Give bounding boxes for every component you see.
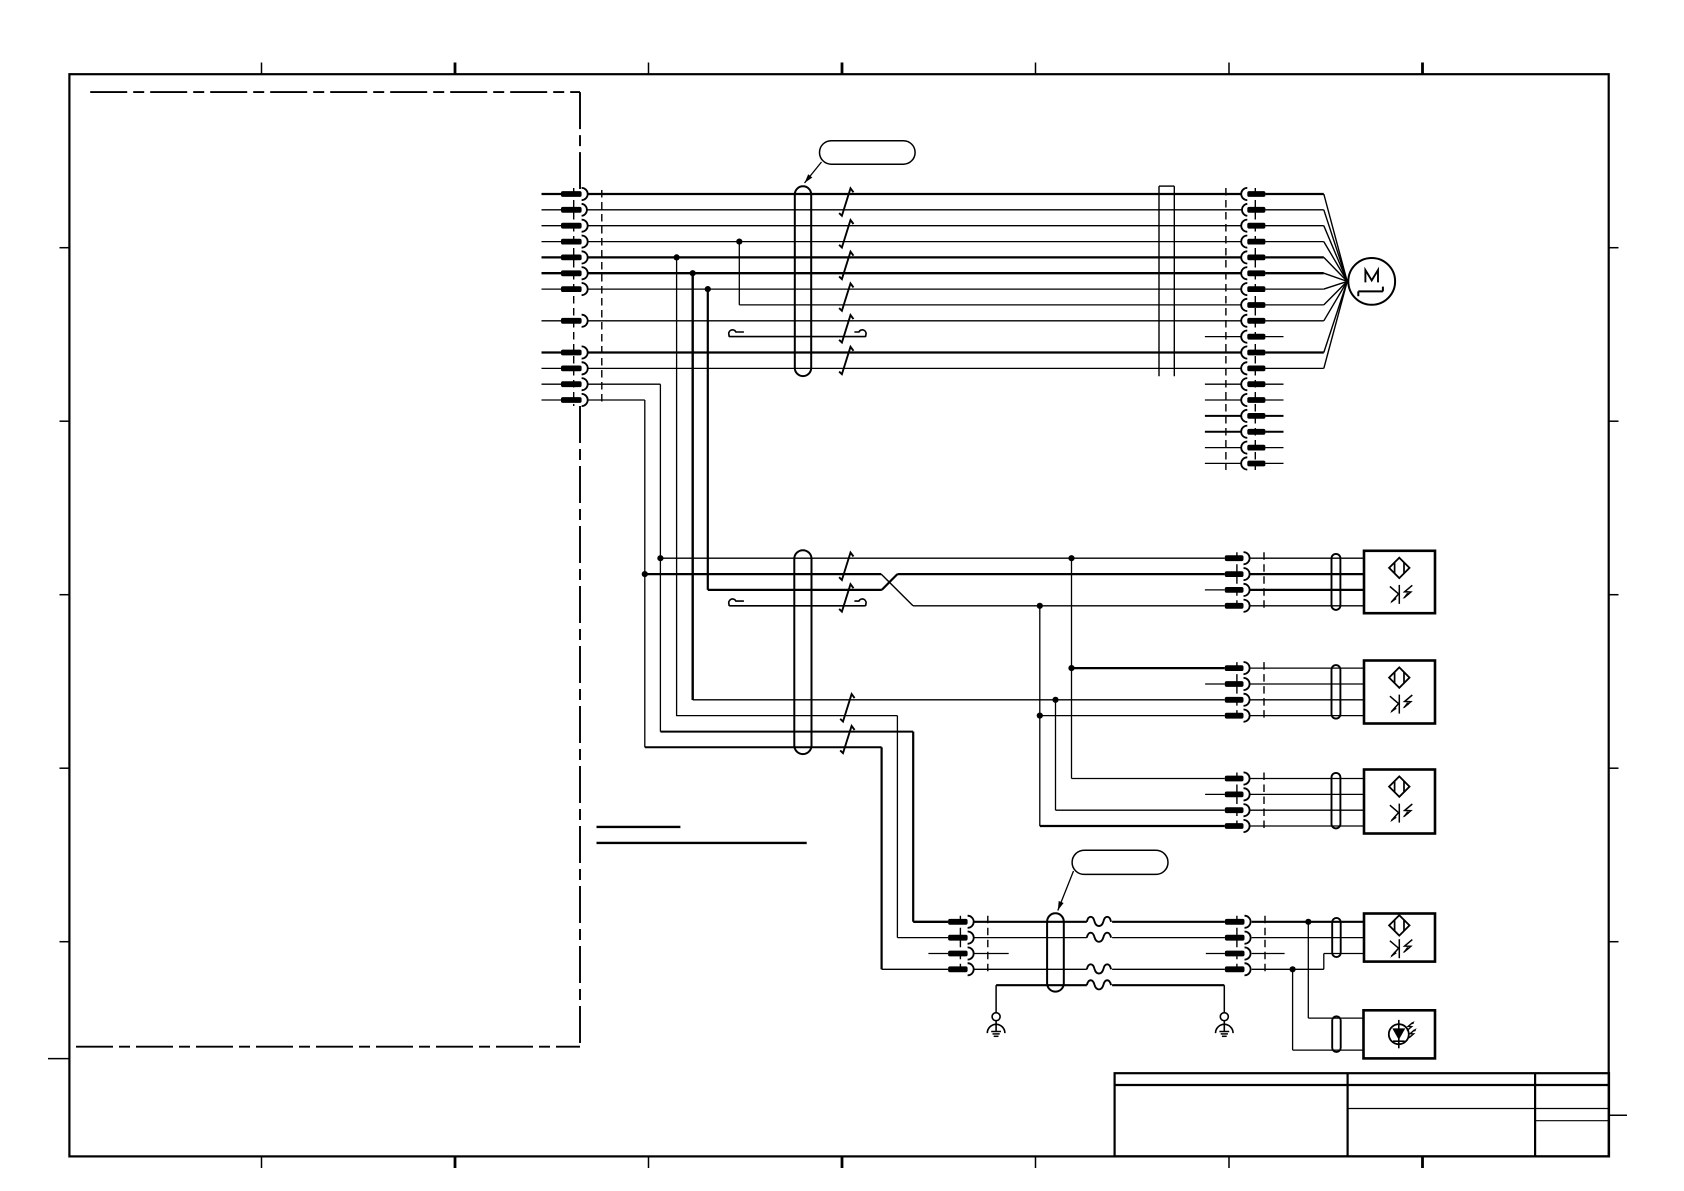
stub g2r2 [1205, 683, 1225, 685]
terminal X2:2 (right) [1242, 204, 1265, 216]
terminal X12 row 2 [1225, 788, 1250, 800]
motor fan wire y=321 [1265, 320, 1323, 322]
wire g1r4 [913, 605, 1225, 607]
stub left of terminal X2:16 [1205, 431, 1242, 433]
wire g3r1 [1072, 778, 1225, 780]
twisted pair symbol shield [1087, 980, 1111, 989]
junction dot g2r3 / distribution [1052, 697, 1058, 703]
conductor count tick feed rows 731/747 [840, 726, 854, 753]
terminal X1:12 (left) [542, 362, 588, 374]
terminal X1:9 (left) [542, 315, 588, 327]
stub left of X21:3 [1206, 953, 1225, 955]
wire g3r4 [1040, 825, 1225, 827]
terminal X2:1 (right) [1241, 188, 1265, 200]
stub left of terminal X2:18 [1205, 462, 1242, 464]
bottom cable feeder vertical x=897.4 [896, 716, 898, 938]
terminal X11 row 3 [1225, 694, 1250, 706]
label underline 1 [597, 826, 681, 828]
junction dot row 5 [674, 254, 680, 260]
wire motor conductor row 1 [588, 193, 1242, 195]
stub left of terminal X2:15 [1205, 415, 1242, 417]
stub right of X20:3 [974, 953, 1009, 955]
bottom cable wire y=938 (right of twist) [1112, 937, 1225, 939]
bottom cable wire y=969 (left of twist) [974, 968, 1087, 970]
terminal X21:4 [1225, 963, 1251, 975]
step vertical up [1323, 954, 1325, 970]
dashed marker line through right terminal blocks [1254, 188, 1256, 470]
motor fan wire y=273 [1265, 272, 1323, 274]
enclosure boundary bottom edge [76, 1046, 580, 1048]
photoelectric sensor B3 [1364, 770, 1435, 834]
dashed marker through X21 blocks [1236, 916, 1238, 976]
stub right of X21:3 [1252, 953, 1285, 955]
wire branch row4 to row8 (vertical) [738, 242, 740, 305]
terminal X2:15 (right) [1241, 410, 1265, 422]
terminal X10 row 4 [1225, 600, 1250, 612]
conductor count tick feed rows 700/716 [840, 694, 854, 721]
bottom cable wire y=922 (left of twist) [974, 921, 1087, 923]
leader arrow to W3 [1058, 871, 1074, 911]
terminal X10 row 1 [1225, 552, 1250, 564]
wire 731.6 feed [660, 731, 913, 733]
dashed marker line right of left terminals [601, 190, 603, 404]
bottom cable feeder vertical x=881.6 [880, 747, 882, 969]
twisted pair symbol y=938 [1087, 933, 1111, 942]
dashed marker through X11 blocks [1236, 662, 1238, 722]
junction dot lamp branch [1290, 966, 1296, 972]
motor fan wire y=257 [1265, 256, 1323, 258]
wire lamp row2 [1293, 1049, 1364, 1051]
junction dot g2r1 [1068, 665, 1074, 671]
wire row 14 to down-feeder [588, 399, 645, 401]
conductor count tick g1 rows3-4 [839, 584, 853, 611]
bottom cable wire y=922 (right of twist) [1112, 921, 1225, 923]
wire 747.2 feed [645, 746, 882, 748]
dashed marker right of X12 [1263, 773, 1265, 833]
bottom cable wire y=969 (right of twist) [1112, 968, 1225, 970]
stub g1r3 [1205, 589, 1225, 591]
distribution vertical x=1055.5 [1055, 700, 1057, 810]
label underline 2 [597, 842, 807, 844]
wire g2r3 feed [693, 699, 1225, 701]
terminal X21:2 [1225, 932, 1251, 944]
motor fan wire y=289 [1265, 288, 1323, 290]
wire motor conductor row 9 [588, 320, 1242, 322]
terminal X1:2 (left) [542, 204, 587, 216]
stub left of terminal X2:13 [1205, 383, 1242, 385]
terminal X10 row 2 [1225, 568, 1250, 580]
wire X10 row 1 to sensor [1249, 557, 1364, 559]
terminal X1:7 (left) [542, 283, 588, 295]
motor fan wire y=242 [1265, 241, 1323, 243]
terminal X10 row 3 [1225, 584, 1250, 596]
terminal X2:9 (right) [1241, 315, 1265, 327]
terminal X1:14 (left) [542, 394, 588, 406]
title block [1115, 1073, 1609, 1156]
wire lamp row1 [1308, 1017, 1363, 1019]
terminal X2:17 (right) [1241, 442, 1265, 454]
terminal X21:3 [1225, 947, 1251, 959]
dashed marker right of X11 [1263, 662, 1265, 722]
wire motor conductor row 12 [588, 367, 1242, 369]
twisted pair symbol y=969 [1087, 964, 1111, 973]
wire motor conductor row 7 [588, 288, 1242, 290]
wire motor conductor row 8 [739, 304, 1241, 306]
wire X10 row 3 to sensor [1249, 589, 1364, 591]
terminal X20:2 [897, 932, 973, 944]
cable label balloon W3 [1072, 850, 1168, 874]
cable sheath W2 [794, 550, 811, 754]
stub right of terminal X2:13 [1265, 383, 1283, 385]
wire g2r4 [1040, 715, 1225, 717]
drop vertical to lamp row2 [1292, 969, 1294, 1050]
photoelectric sensor B2 [1364, 661, 1435, 724]
cable label balloon W1 [820, 141, 916, 165]
distribution vertical x=1071.5 [1071, 558, 1073, 778]
cable shield bars [1159, 186, 1174, 376]
motor fan wire y=194 [1265, 193, 1323, 195]
wire motor conductor row 5 [588, 256, 1242, 258]
motor fan wire y=226 [1265, 225, 1323, 227]
cable sheath at X11 [1332, 665, 1341, 719]
wire motor conductor row 6 [588, 272, 1242, 274]
terminal X2:7 (right) [1241, 283, 1265, 295]
wire B4 row2 [1252, 937, 1364, 939]
terminal X2:6 (right) [1241, 267, 1265, 279]
dashed marker line through left terminal blocks [573, 188, 575, 406]
conductor count tick rows 5-6 [839, 252, 853, 279]
cable sheath W3 [1047, 913, 1064, 991]
terminal X2:14 (right) [1241, 394, 1265, 406]
terminal X2:4 (right) [1241, 236, 1265, 248]
terminal X20:3 [928, 947, 973, 959]
wire drop vertical x=692.7 [692, 273, 694, 700]
bottom cable feeder vertical x=913.2 [912, 732, 914, 922]
terminal X2:5 (right) [1241, 251, 1265, 263]
conductor count tick rows 9-10 [839, 315, 853, 342]
junction dot g1r4 / distribution [1037, 603, 1043, 609]
terminal X12 row 3 [1225, 804, 1250, 816]
stub right of terminal X2:16 [1265, 431, 1283, 433]
dashed marker through X20 blocks [959, 916, 961, 976]
shield drop to ground left [995, 985, 997, 1012]
ground PE1 [987, 1013, 1005, 1037]
terminal X2:11 (right) [1241, 346, 1265, 358]
dashed marker right of X21 [1264, 916, 1266, 976]
wire X11 row 1 to sensor [1249, 667, 1364, 669]
drop vertical to lamp row1 [1307, 922, 1309, 1018]
wire motor conductor row 2 [588, 209, 1242, 211]
junction dot feeder 660.4 / row g1r1 [657, 555, 663, 561]
stub right of terminal X2:18 [1265, 462, 1283, 464]
crossing diagonal down [881, 574, 913, 606]
cable sheath W1 [795, 186, 811, 376]
wire g1r1 [660, 557, 1224, 559]
terminal X2:10 (right) [1241, 331, 1265, 343]
indicator lamp E1 (LED) [1364, 1010, 1436, 1058]
wire row 13 to down-feeder [588, 383, 661, 385]
junction dot g2r4 [1037, 713, 1043, 719]
junction dot feeder 644.8 / row 574 [642, 571, 648, 577]
junction dot row 6 [690, 270, 696, 276]
wire motor conductor row 11 [588, 351, 1242, 353]
distribution vertical x=1039.8 [1039, 606, 1041, 826]
wire motor conductor row 3 [588, 225, 1242, 227]
junction dot B4 row1 [1305, 919, 1311, 925]
wire X12 row 2 to sensor [1249, 793, 1364, 795]
wire 716.1 feed [677, 715, 898, 717]
wire B4 row3 [1324, 953, 1364, 955]
wire X10 row 2 to sensor [1249, 573, 1364, 575]
terminal X2:18 (right) [1241, 457, 1265, 469]
cable sheath at B4 [1332, 918, 1341, 957]
terminal X11 row 1 [1225, 662, 1250, 674]
wire X11 row 2 to sensor [1249, 683, 1364, 685]
wire X21:4 to step [1252, 968, 1324, 970]
enclosure boundary right edge (upper) [579, 92, 581, 189]
shield drop to ground right [1223, 985, 1225, 1012]
photoelectric sensor B4 [1364, 914, 1435, 962]
terminal X2:8 (right) [1241, 299, 1265, 311]
conductor count tick rows 3-4 [839, 220, 853, 248]
wire motor conductor row 4 [588, 241, 1242, 243]
motor fan wire y=210 [1265, 209, 1323, 211]
terminal X21:1 [1225, 916, 1251, 928]
stub right of terminal X2:17 [1265, 447, 1283, 449]
enclosure boundary right edge (lower) [579, 406, 581, 1047]
junction dot g1r1 / distribution [1068, 555, 1074, 561]
terminal X20:1 [913, 916, 974, 928]
photoelectric sensor B1 [1364, 551, 1435, 613]
feeder vertical x=660.4 [659, 384, 661, 731]
cable sheath at X10 [1332, 554, 1341, 610]
cable sheath at E1 [1332, 1016, 1341, 1052]
dashed marker through X12 blocks [1236, 773, 1238, 833]
wire B4 row1 [1252, 921, 1364, 923]
stub left of terminal X2:10 [1205, 336, 1242, 338]
stub right of terminal X2:14 [1265, 399, 1283, 401]
dashed marker right of X10 [1263, 552, 1265, 612]
dashed marker through X10 blocks [1236, 552, 1238, 612]
dashed marker line left of right terminals [1225, 188, 1227, 470]
junction dot row 7 [705, 286, 711, 292]
terminal X1:1 (left) [542, 188, 588, 200]
terminal X1:13 (left) [542, 378, 588, 390]
wire X11 row 4 to sensor [1249, 715, 1364, 717]
wire drop vertical x=676.6 [676, 257, 678, 716]
terminal X1:5 (left) [542, 251, 588, 263]
terminal X1:3 (left) [542, 220, 588, 232]
conductor count tick rows 11-12 [839, 347, 853, 374]
leader arrow to W1 [805, 162, 822, 183]
wire g3r3 [1056, 809, 1225, 811]
terminal X12 row 1 [1225, 772, 1250, 784]
wire g2r1 [1072, 667, 1225, 669]
terminal X2:16 (right) [1241, 426, 1265, 438]
motor fan wire y=368 [1265, 367, 1323, 369]
wire g1r2 [897, 573, 1224, 575]
wire X12 row 4 to sensor [1249, 825, 1364, 827]
wire X12 row 3 to sensor [1249, 809, 1364, 811]
terminal X2:12 (right) [1241, 362, 1265, 374]
shield wire (right segment) [1112, 984, 1224, 986]
dashed marker right of X20 [987, 916, 989, 976]
motor M1 (stepper) [1348, 258, 1395, 305]
stub g3r2 [1205, 793, 1225, 795]
terminal X1:6 (left) [542, 267, 588, 279]
stub right of terminal X2:10 [1265, 336, 1283, 338]
motor fan wire y=305 [1265, 304, 1323, 306]
crossing diagonal up [882, 574, 898, 590]
shield pigtail wire W1 [729, 330, 866, 337]
conductor count tick rows 7-8 [839, 283, 853, 310]
motor fan wire y=352 [1265, 351, 1323, 353]
conductor count tick g1 rows1-2 [839, 553, 853, 581]
wire X11 row 3 to sensor [1249, 699, 1364, 701]
enclosure boundary top edge [90, 91, 580, 93]
stub right of terminal X2:15 [1265, 415, 1283, 417]
conductor count tick rows 1-2 [839, 188, 853, 216]
terminal X11 row 4 [1225, 710, 1250, 722]
wire X12 row 1 to sensor [1249, 778, 1364, 780]
terminal X20:4 [882, 963, 974, 975]
stub left of terminal X2:14 [1205, 399, 1242, 401]
wire X10 row 4 to sensor [1249, 605, 1364, 607]
terminal X1:11 (left) [542, 346, 588, 358]
ground PE2 [1216, 1013, 1234, 1037]
stub left of terminal X2:17 [1205, 447, 1242, 449]
junction dot row 4 / branch [736, 239, 742, 245]
twisted pair symbol y=922 [1087, 917, 1111, 926]
terminal X2:3 (right) [1241, 220, 1265, 232]
shield wire (left segment) [996, 984, 1087, 986]
shield pigtail wire W2 [729, 599, 866, 606]
wire 589.9 to crossing [708, 589, 882, 591]
wire drop vertical x=707.8 [707, 289, 709, 590]
terminal X12 row 4 [1225, 820, 1250, 832]
terminal X2:13 (right) [1241, 378, 1265, 390]
terminal X1:4 (left) [542, 236, 588, 248]
cable sheath at X12 [1332, 773, 1341, 829]
wire 574 to crossing [645, 573, 881, 575]
bottom cable wire y=938 (left of twist) [974, 937, 1087, 939]
terminal X11 row 2 [1225, 678, 1250, 690]
feeder vertical x=644.8 [644, 400, 646, 747]
